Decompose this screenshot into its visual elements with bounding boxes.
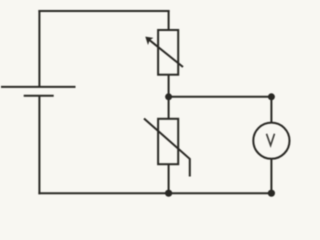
wire battery positive up to top-left corner — [38, 10, 40, 87]
battery B1 short plate — [24, 95, 54, 97]
voltmeter V1 label — [267, 134, 275, 146]
node D junction dot — [268, 190, 275, 197]
wire top down to R1 — [168, 10, 170, 30]
wire voltmeter down to node D — [270, 159, 272, 194]
node C junction dot — [165, 190, 172, 197]
variable resistor R1 arrowhead — [145, 37, 153, 45]
node A junction dot — [165, 93, 172, 100]
voltmeter V1 circle — [253, 123, 289, 159]
variable resistor R1 arrow shaft — [147, 38, 184, 67]
wire node B down to voltmeter — [270, 97, 272, 123]
node B junction dot — [268, 93, 275, 100]
wire top horizontal — [38, 10, 169, 12]
wire bottom horizontal — [38, 192, 271, 194]
wire battery negative down to bottom wire — [38, 96, 40, 195]
wire R1 bottom to node A — [168, 75, 170, 97]
variable resistor R1 body — [158, 30, 178, 75]
wire R2 bottom to node C — [168, 164, 170, 193]
wire node A down to R2 — [168, 97, 170, 119]
battery B1 long plate — [1, 86, 76, 88]
thermistor R2 diagonal line with bent foot — [144, 119, 190, 177]
wire node A to node B (middle horizontal) — [169, 96, 272, 98]
thermistor R2 body — [158, 119, 178, 164]
